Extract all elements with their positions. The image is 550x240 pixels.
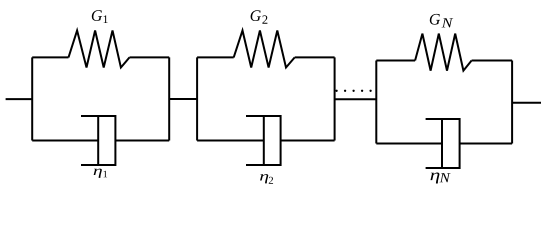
wire: element 3 bottom rail left segment (dashpot piston rod) [376,143,442,145]
wire: series link between element 1 and element 2 [169,98,197,100]
wire: element 2 top rail left segment [197,56,234,58]
wire: element 2 right riser [334,57,336,140]
wire: element 2 top rail right segment [295,56,335,58]
spring G1 zigzag [69,31,130,68]
wire: element 1 top rail right segment [130,56,170,58]
wire: element 1 right riser [168,57,170,140]
dashpot etaN piston plate [441,119,443,168]
wire: element 3 top rail right segment [472,60,512,62]
wire: element 1 top rail left segment [32,56,68,58]
label G_1 [92,10,108,23]
dashpot etaN cylinder (open left) [426,119,460,168]
continuation ellipsis dots [335,90,371,92]
wire: element 2 left riser [196,57,198,140]
wire: element 1 left riser [31,57,33,140]
wire: element 3 bottom rail right segment [460,143,512,145]
wire: element 3 left riser [375,61,377,144]
wire: series link between element 2 and element 3 [335,98,377,100]
wire: element 2 bottom rail left segment (dashpot piston rod) [197,140,264,142]
spring G2 zigzag [234,31,295,68]
wire: element 2 bottom rail right segment [281,140,335,142]
wire: right terminal lead [512,102,541,104]
spring GN zigzag [415,34,472,71]
dashpot eta1 piston plate [97,116,99,165]
label eta_N [431,173,451,184]
label eta_2 [260,174,273,184]
dashpot eta2 piston plate [263,116,265,165]
wire: element 1 bottom rail right segment [115,140,169,142]
wire: element 1 bottom rail left segment (dashpot piston rod) [32,140,98,142]
label G_2 [251,10,268,23]
label eta_1 [94,169,107,178]
dashpot eta2 cylinder (open left) [246,116,281,165]
dashpot eta1 cylinder (open left) [81,116,115,165]
wire: element 3 right riser [511,61,513,144]
wire: left terminal lead [6,98,33,100]
label G_N [430,14,453,27]
wire: element 3 top rail left segment [376,60,415,62]
